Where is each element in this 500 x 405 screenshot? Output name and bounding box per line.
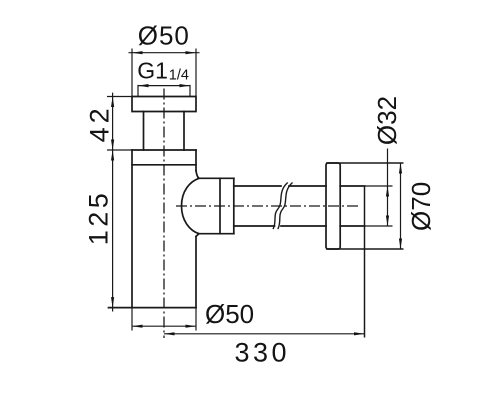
330 right extension / pipe end line — [364, 186, 366, 338]
body bottom edge — [109, 307, 197, 309]
arrow 125 bottom — [111, 297, 114, 308]
dia50 top dimension line — [129, 52, 200, 54]
arrow dia70 bottom — [399, 239, 402, 250]
arrow dia50 top left — [132, 51, 143, 54]
arrow 330 right — [354, 332, 365, 335]
svg-text:1/4: 1/4 — [169, 68, 189, 84]
body right edge lower segment — [195, 237, 197, 308]
elbow top edge — [198, 177, 234, 179]
body ring top edge — [132, 149, 196, 151]
arrow dia50 bottom right — [186, 325, 197, 328]
svg-text:330: 330 — [235, 338, 291, 368]
svg-text:G1: G1 — [137, 58, 168, 84]
elbow bulge — [182, 171, 200, 237]
dia50 bottom dimension line — [132, 325, 196, 327]
wall flange pipe hole top line — [340, 185, 364, 187]
arrow dia32 bottom — [386, 216, 389, 227]
arrow 125 top — [111, 150, 114, 161]
arrow dia50 top right — [186, 51, 197, 54]
svg-text:125: 125 — [84, 190, 114, 246]
vertical centerline — [163, 89, 165, 339]
horizontal centerline — [176, 205, 358, 207]
G1 1/4 dimension line — [138, 85, 190, 87]
330 dimension line — [164, 333, 365, 335]
G1 1/4 extension lines — [138, 85, 190, 97]
arrow 42 top — [111, 97, 114, 108]
elbow collar right line — [233, 178, 235, 233]
arrow G1 right — [180, 84, 191, 87]
wall flange pipe hole bottom line — [340, 225, 364, 227]
svg-text:Ø50: Ø50 — [138, 20, 190, 50]
elbow bottom edge — [198, 233, 234, 235]
dia70 dimension line — [400, 163, 402, 249]
pipe top line — [234, 185, 326, 187]
dia32 extension lines — [365, 186, 393, 226]
body right edge upper segment — [195, 150, 197, 171]
42 extension lines — [107, 97, 132, 151]
arrow dia70 top — [399, 163, 402, 174]
dia32 dimension line — [387, 149, 389, 227]
42/125 dimension line — [112, 93, 114, 312]
pipe bottom line — [234, 225, 326, 227]
arrow G1 left — [138, 84, 149, 87]
svg-text:42: 42 — [85, 104, 115, 142]
neck — [144, 112, 185, 151]
arrow dia32 top — [386, 186, 389, 197]
dia50 top extension lines — [132, 49, 196, 97]
pipe break squiggle — [273, 183, 287, 229]
top flange (nut) — [132, 97, 196, 112]
arrow dia50 bottom left — [132, 325, 143, 328]
arrow 330 left — [164, 332, 175, 335]
svg-text:Ø50: Ø50 — [205, 299, 254, 329]
dia70 extension lines — [326, 163, 404, 249]
dia50 bottom extension lines — [132, 308, 196, 331]
svg-text:Ø32: Ø32 — [372, 96, 402, 145]
arrow 42 bottom — [111, 140, 114, 151]
body left edge — [131, 150, 133, 308]
elbow collar left line — [219, 178, 221, 233]
body ring bottom edge — [132, 164, 196, 166]
svg-text:Ø70: Ø70 — [406, 182, 436, 231]
wall flange plate — [326, 163, 340, 249]
